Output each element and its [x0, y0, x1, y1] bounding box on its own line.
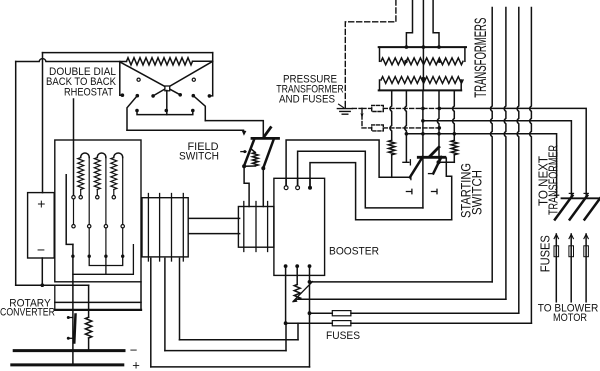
wire transformer primary bar [379, 46, 466, 48]
wire resistor2 down [453, 155, 455, 163]
node secondary stud [422, 77, 425, 80]
wire brush coil 1 left leg [80, 190, 82, 196]
switch field pivot bar [252, 137, 279, 140]
wire wiper brush link [73, 199, 75, 224]
switch starting lower jaw L [406, 189, 412, 193]
wire resistor feed [88, 285, 90, 317]
node H1 dot b [438, 107, 442, 111]
node comm stud 2 [88, 255, 91, 258]
node rheostat hub [165, 86, 170, 91]
wire H1 dashed segment [383, 107, 439, 109]
node brush circle wiper [72, 196, 75, 199]
wire line H1 [439, 108, 586, 195]
wire AC arch 3 [310, 163, 452, 220]
wire brush column 1 to stud [88, 228, 90, 256]
svg-text:BOOSTER: BOOSTER [329, 246, 379, 258]
wire machine lead B thick [55, 309, 141, 311]
node starting jaw stud [437, 160, 441, 164]
wire supply phase 1 [406, 0, 412, 47]
svg-text:AND FUSES: AND FUSES [279, 94, 335, 106]
switch field blade 1 [244, 139, 254, 166]
wire blower feed 2 [570, 234, 572, 302]
node booster stud 3 [308, 186, 312, 190]
coil brush hairpin 2 cap [97, 153, 106, 158]
wire slip ring lead 1 [150, 258, 152, 367]
wire to field switch jaw [127, 129, 244, 131]
wire minus box lead [41, 258, 43, 285]
node blower prongs 3 [584, 234, 588, 238]
switch starting jaw B1 [403, 160, 411, 165]
wire brush coil 2 right leg [105, 158, 107, 225]
wire feeder 1 [490, 8, 492, 282]
node primary zz stud 2 [438, 60, 441, 63]
switch starting bar [418, 156, 445, 159]
wire stud D to field line [193, 96, 205, 121]
fuse pressure 1 dashed [372, 105, 384, 111]
node horn contact 1 [555, 194, 559, 196]
node open stud E [137, 78, 140, 81]
wire loop L1 [180, 339, 299, 341]
node primary tap 1 [405, 45, 409, 49]
switch horn blade 2 [570, 196, 588, 220]
box commutator [55, 140, 141, 282]
wire rheostat lower bar [137, 111, 193, 115]
resistor rheostat top zigzag [127, 58, 193, 65]
svg-text:MOTOR: MOTOR [553, 312, 587, 324]
wire booster lead 1 [285, 266, 287, 323]
node rheostat arrow head [292, 298, 297, 302]
wire loop L2 riser [285, 323, 287, 350]
node H2b dot [438, 126, 442, 130]
box converter armature [142, 198, 188, 257]
wire loop L2 [165, 350, 286, 352]
node H1 dot a [421, 107, 425, 111]
wire tap column E [453, 90, 455, 140]
node H3 dot 2 [421, 132, 425, 136]
wire booster field hatch 2 [255, 202, 257, 252]
wire feeder 4 [530, 8, 532, 324]
svg-text:RHEOSTAT: RHEOSTAT [64, 87, 113, 99]
node booster bottom stud 2 [295, 264, 299, 268]
node brush circle 1 row1 [79, 196, 82, 199]
node lead3 junction y3 [308, 311, 312, 315]
svg-text:TRANSFORMERS: TRANSFORMERS [472, 18, 490, 98]
node brush circle wiper row2 [72, 225, 75, 228]
node blower prongs 2 [569, 234, 573, 238]
wire rheostat dial arm right [153, 61, 213, 96]
wire phase line 1 [310, 281, 493, 283]
wire phase line 2 [297, 298, 506, 300]
resistor brush coil 1 zigzag [78, 158, 84, 190]
wire rheostat dial arm left [121, 62, 181, 95]
wire rheostat input with hop over vertical [16, 59, 127, 62]
node brush circle 3 row1 [112, 196, 115, 199]
switch field blade 2 [263, 140, 273, 168]
wire feeder 2 [504, 8, 506, 300]
switch starting hinge tick 1 [410, 175, 412, 180]
wire rheostat arrow [293, 282, 313, 302]
node field switch jaw arrow [242, 130, 247, 136]
switch starting lower jaw R [432, 189, 438, 193]
wire commutator left edge extension [54, 285, 56, 310]
node knife lower stud [67, 337, 70, 340]
ground tick [339, 104, 344, 107]
node minus lead junction [41, 283, 45, 287]
wire brush coil 1 right leg [88, 158, 90, 225]
node right bracket stud [208, 94, 212, 98]
switch knife lower jaw [68, 337, 73, 339]
node knife upper stud [67, 316, 70, 319]
fuse main 1 [332, 311, 351, 316]
switch horn gap bar [562, 197, 600, 199]
node brush circle 2 row1 [96, 196, 99, 199]
node fuse loop arrow [361, 113, 364, 118]
node H3 dot 3 [437, 132, 441, 136]
wire DC negative lead / switch column [72, 244, 74, 365]
wire transformer secondary bar [379, 89, 462, 91]
wire phase line 4b [351, 322, 532, 324]
switch starting blade 2 [433, 157, 441, 174]
box booster field coil [238, 207, 274, 248]
wire feeder 3 [517, 8, 519, 314]
node brush circle 1 row2 [88, 225, 91, 228]
wire tap column B [405, 90, 407, 162]
wire bottom left horizontal [16, 284, 89, 286]
wire vertical to + brush [42, 53, 44, 193]
node comm stud 4 [121, 255, 124, 258]
svg-text:+: + [132, 358, 140, 371]
switch starting blade 1 [410, 157, 423, 177]
wire fuse2 stub dashed [362, 127, 372, 129]
node primary tap 3 [437, 45, 441, 49]
wire primary left end [379, 47, 381, 61]
ground pressure transformer [337, 103, 352, 114]
wire brush coil 3 right leg [122, 158, 124, 225]
switch horn blade 1 [555, 196, 573, 220]
wire bus bar positive [12, 363, 123, 366]
node blower prongs 1 [554, 234, 558, 238]
switch field handle tip [264, 128, 270, 137]
wire primary right end [464, 47, 466, 61]
wire booster terminal stub 2 [297, 178, 299, 186]
resistor booster shunt rheostat [294, 285, 300, 300]
wire booster terminal stub 1 [285, 178, 287, 186]
resistor brush coil 2 zigzag [94, 158, 100, 190]
wire brush column 3 to stud [122, 228, 124, 256]
node primary zz stud 1 [404, 60, 407, 63]
node primary tap 2 [422, 45, 426, 49]
wire booster field hatch 3 [267, 202, 269, 252]
wire H2 dashed segment [383, 127, 439, 129]
wire zigzag to right corner [193, 60, 213, 62]
wire pressure tap dashed [345, 0, 396, 103]
node horn contact 2 [569, 192, 573, 194]
resistor starting 1 [389, 140, 395, 155]
fuse pressure 2 dashed [372, 125, 384, 131]
wire hub to bar [166, 91, 168, 115]
wire line H2 [423, 121, 572, 196]
wire supply phase 2 [422, 0, 424, 47]
wire brush coil 2 left leg [96, 190, 98, 196]
svg-text:SWITCH: SWITCH [179, 151, 219, 163]
fuse blower 3 [584, 246, 589, 257]
wire loop L1 riser [297, 323, 299, 340]
switch horn blade 3 [585, 198, 600, 219]
wire primary to secondary center [422, 47, 424, 90]
node field blade 1 hinge [242, 164, 246, 168]
wire line H3 [406, 134, 556, 197]
switch starting hinge tick 2 [429, 173, 433, 175]
wire slip ring lead 3 [179, 258, 181, 339]
node lead1 junction [284, 321, 288, 325]
svg-text:FUSES: FUSES [539, 235, 553, 272]
svg-text:−: − [37, 242, 45, 258]
wire coil bottom link [244, 165, 255, 167]
svg-text:CONVERTER: CONVERTER [0, 307, 55, 319]
wire armature hatch 2 [159, 194, 161, 262]
wire resistor1 to line [391, 155, 393, 178]
node open stud F [192, 78, 195, 81]
node stud B [151, 94, 155, 98]
wire fuse1 stub dashed [362, 107, 372, 109]
wire stud A to field line [127, 96, 137, 131]
wire resistor2 link [439, 161, 455, 163]
wire brush staircase [66, 175, 73, 245]
wire fuse loop vertical dashed [361, 108, 363, 128]
node stud C [178, 93, 182, 97]
wire booster lead 3 [309, 266, 311, 367]
wire slip ring lead 2 [164, 258, 166, 350]
switch knife upper jaw [68, 317, 73, 319]
wire bus bar negative [14, 349, 124, 352]
node booster bottom stud 3 [308, 264, 312, 268]
switch knife blade [74, 315, 75, 343]
wire bar end drop [446, 158, 451, 220]
svg-text:TRANSFORMER: TRANSFORMER [547, 145, 561, 215]
wire booster lead 2 upper [296, 266, 298, 284]
node stud D [192, 94, 196, 98]
wire comm bus 1 [89, 256, 123, 265]
fuse main 2 [332, 321, 351, 326]
resistor starting resistor [85, 317, 91, 338]
node booster circle 1 [284, 186, 288, 190]
wire field blade2 to booster field [262, 168, 264, 206]
svg-text:−: − [130, 343, 138, 358]
wire AC arch 2 [298, 151, 423, 208]
wire ground to fuse loop dashed [352, 107, 362, 109]
node inner stud I [191, 109, 195, 113]
node left bracket stud [121, 93, 125, 97]
node booster bottom stud 1 [284, 264, 288, 268]
wire shaft coupling upper [189, 217, 240, 219]
node field jaw 2 tick [241, 151, 246, 153]
node brush circle 3 row2 [121, 225, 124, 228]
wire tap column C [422, 90, 424, 207]
wire coil top link [251, 149, 256, 153]
wire armature hatch 1 [147, 194, 149, 262]
wire commutator right edge down [140, 282, 142, 310]
node lead3 junction y1 [308, 280, 312, 284]
fuse blower 1 [554, 246, 559, 257]
wire comm bus 2 [73, 245, 133, 275]
wire supply phase 3 [433, 0, 439, 47]
svg-text:FUSES: FUSES [326, 330, 360, 342]
wire shaft coupling lower [189, 233, 240, 235]
wire AC arch 1 [286, 140, 410, 186]
wire loop L3 [151, 366, 310, 368]
wire booster terminal stub 3 [309, 178, 311, 186]
wire tap column A [390, 90, 392, 140]
node inner stud H [165, 109, 169, 113]
box converter brushes [28, 193, 55, 258]
node comm stud 3 [104, 255, 107, 258]
wire blower feed 3 [585, 234, 587, 302]
coil brush hairpin 1 cap [81, 153, 90, 158]
node stud A [136, 94, 140, 98]
wire rheostat right bracket [210, 53, 213, 96]
switch starting handle [430, 147, 439, 156]
resistor secondary winding [381, 77, 463, 84]
box booster [274, 178, 325, 275]
fuse blower 2 [569, 246, 574, 257]
node field jaw 2 stud [243, 150, 246, 153]
resistor starting 2 [451, 140, 457, 155]
node brush circle 2 row2 [104, 225, 107, 228]
coil brush hairpin 3 cap [114, 153, 123, 158]
wire rheostat wiper lead [73, 99, 75, 195]
wire phase line 3a [310, 312, 333, 314]
wire tap column D [437, 90, 439, 162]
wire booster field hatch 1 [243, 202, 245, 252]
wire phase line 3b [351, 312, 519, 314]
coil field switch blowout [253, 153, 259, 166]
wire armature hatch 4 [182, 194, 184, 262]
node H3 dot 4 [453, 132, 457, 136]
wire secondary right end [460, 80, 462, 90]
wire brush coil 3 left leg [113, 190, 115, 196]
wire secondary left end [379, 80, 381, 90]
resistor primary winding [381, 58, 463, 65]
node inner stud G [135, 109, 139, 113]
wire phase line 4a [286, 322, 333, 324]
node booster circle 2 [296, 186, 300, 190]
svg-text:SWITCH: SWITCH [468, 170, 484, 215]
wire rheostat left bracket [120, 62, 122, 96]
node H2 dot [421, 119, 425, 123]
node horn contact 3 [584, 192, 588, 194]
wire to field switch top [205, 121, 263, 137]
node H3 dot 1 [405, 132, 409, 136]
wire armature hatch 3 [171, 194, 173, 262]
wire brush column 2 to stud [105, 228, 107, 256]
wire blower feed 1 [555, 234, 557, 302]
wire left outer vertical [15, 62, 17, 286]
node comm stud 1 [71, 255, 74, 258]
svg-text:+: + [37, 196, 45, 212]
wire resistor to bus [88, 338, 90, 351]
resistor brush coil 3 zigzag [111, 158, 117, 190]
wire machine lead A [55, 301, 141, 303]
wire top bus of rheostat [43, 52, 213, 54]
wire field blade1 to booster field [244, 166, 249, 206]
node field blade 2 hinge [261, 166, 265, 170]
